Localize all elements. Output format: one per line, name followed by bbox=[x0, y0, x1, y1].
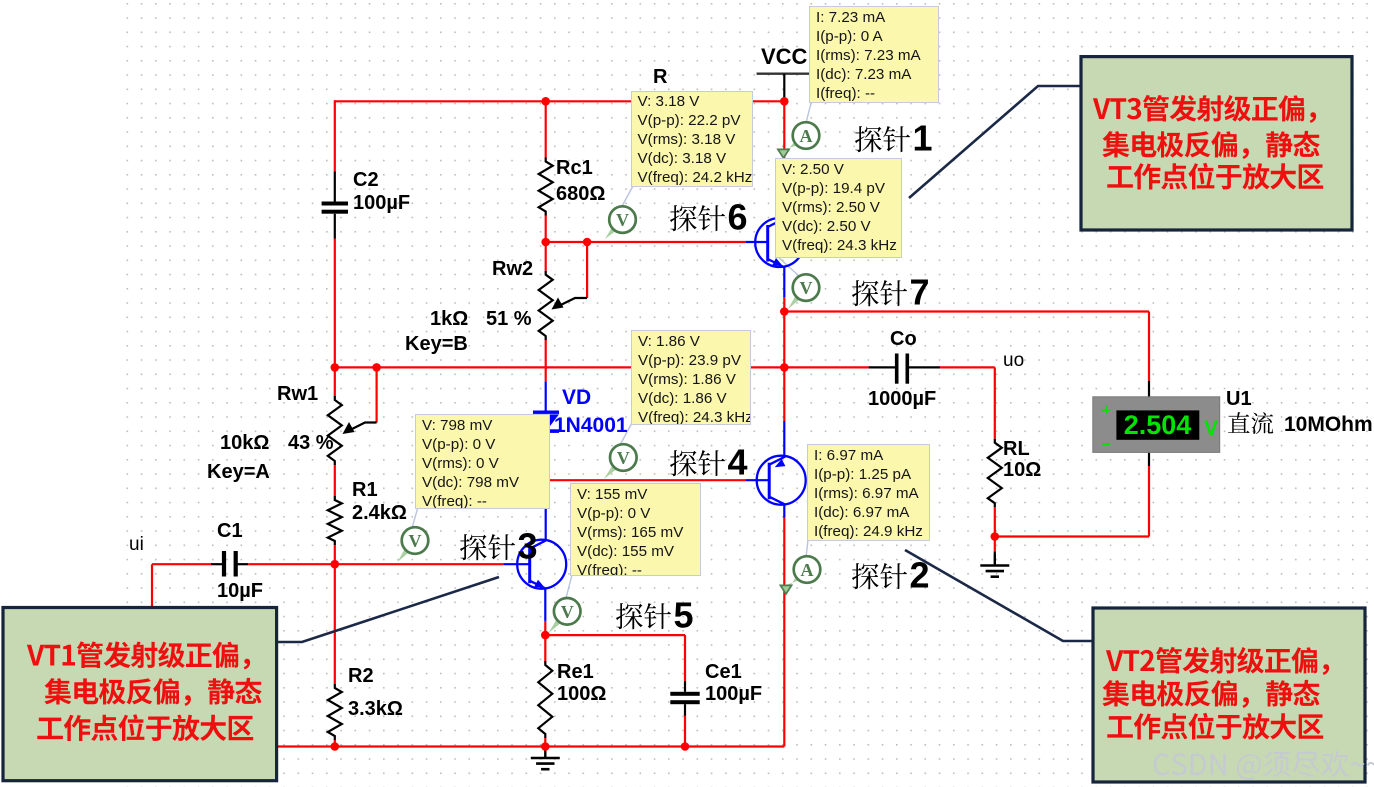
svg-text:100µF: 100µF bbox=[353, 192, 410, 214]
svg-text:43 %: 43 % bbox=[288, 432, 334, 454]
svg-text:680Ω: 680Ω bbox=[556, 183, 605, 205]
svg-text:C1: C1 bbox=[217, 520, 243, 542]
svg-text:Key=B: Key=B bbox=[405, 333, 468, 355]
svg-text:–: – bbox=[1102, 436, 1111, 453]
svg-text:10µF: 10µF bbox=[217, 580, 263, 602]
svg-text:5: 5 bbox=[674, 595, 694, 636]
svg-text:Key=A: Key=A bbox=[207, 461, 270, 483]
svg-text:Rw2: Rw2 bbox=[492, 258, 533, 280]
svg-text:A: A bbox=[800, 126, 813, 146]
svg-text:V: V bbox=[561, 602, 574, 622]
svg-text:1000µF: 1000µF bbox=[868, 388, 936, 410]
svg-text:V: V bbox=[1204, 417, 1218, 440]
svg-text:V: V bbox=[616, 210, 629, 230]
svg-text:U1: U1 bbox=[1226, 388, 1252, 410]
svg-text:Rc1: Rc1 bbox=[556, 157, 593, 179]
svg-text:1N4001: 1N4001 bbox=[554, 414, 628, 437]
svg-text:V: V bbox=[800, 278, 813, 298]
svg-text:+: + bbox=[1101, 401, 1111, 420]
svg-text:uo: uo bbox=[1003, 350, 1024, 371]
svg-text:Ce1: Ce1 bbox=[705, 661, 742, 683]
svg-text:VCC: VCC bbox=[761, 44, 808, 69]
svg-text:Rw1: Rw1 bbox=[277, 383, 318, 405]
svg-text:Co: Co bbox=[890, 328, 917, 350]
svg-text:7: 7 bbox=[910, 272, 930, 313]
svg-text:10kΩ: 10kΩ bbox=[220, 432, 269, 454]
svg-text:3: 3 bbox=[518, 526, 538, 567]
svg-text:C2: C2 bbox=[353, 169, 379, 191]
svg-text:51 %: 51 % bbox=[486, 308, 532, 330]
svg-text:2: 2 bbox=[910, 555, 930, 596]
svg-text:1kΩ: 1kΩ bbox=[430, 308, 468, 330]
svg-text:V: V bbox=[409, 531, 422, 551]
svg-text:VD: VD bbox=[562, 386, 591, 409]
svg-text:RL: RL bbox=[1003, 438, 1030, 460]
svg-text:2.504: 2.504 bbox=[1124, 410, 1192, 440]
svg-text:1: 1 bbox=[913, 118, 933, 159]
svg-text:10Ω: 10Ω bbox=[1003, 459, 1041, 481]
svg-text:3.3kΩ: 3.3kΩ bbox=[348, 698, 403, 720]
svg-text:Re1: Re1 bbox=[557, 661, 594, 683]
svg-text:A: A bbox=[801, 560, 814, 580]
svg-text:ui: ui bbox=[129, 534, 144, 555]
svg-text:R: R bbox=[653, 66, 668, 88]
svg-text:2.4kΩ: 2.4kΩ bbox=[352, 502, 407, 524]
svg-text:10MOhm: 10MOhm bbox=[1284, 413, 1373, 436]
svg-text:R1: R1 bbox=[352, 479, 378, 501]
svg-text:100Ω: 100Ω bbox=[557, 683, 606, 705]
svg-text:R2: R2 bbox=[348, 665, 374, 687]
svg-text:100µF: 100µF bbox=[705, 683, 762, 705]
svg-text:4: 4 bbox=[728, 442, 748, 483]
svg-text:V: V bbox=[617, 448, 630, 468]
svg-text:6: 6 bbox=[728, 197, 748, 238]
